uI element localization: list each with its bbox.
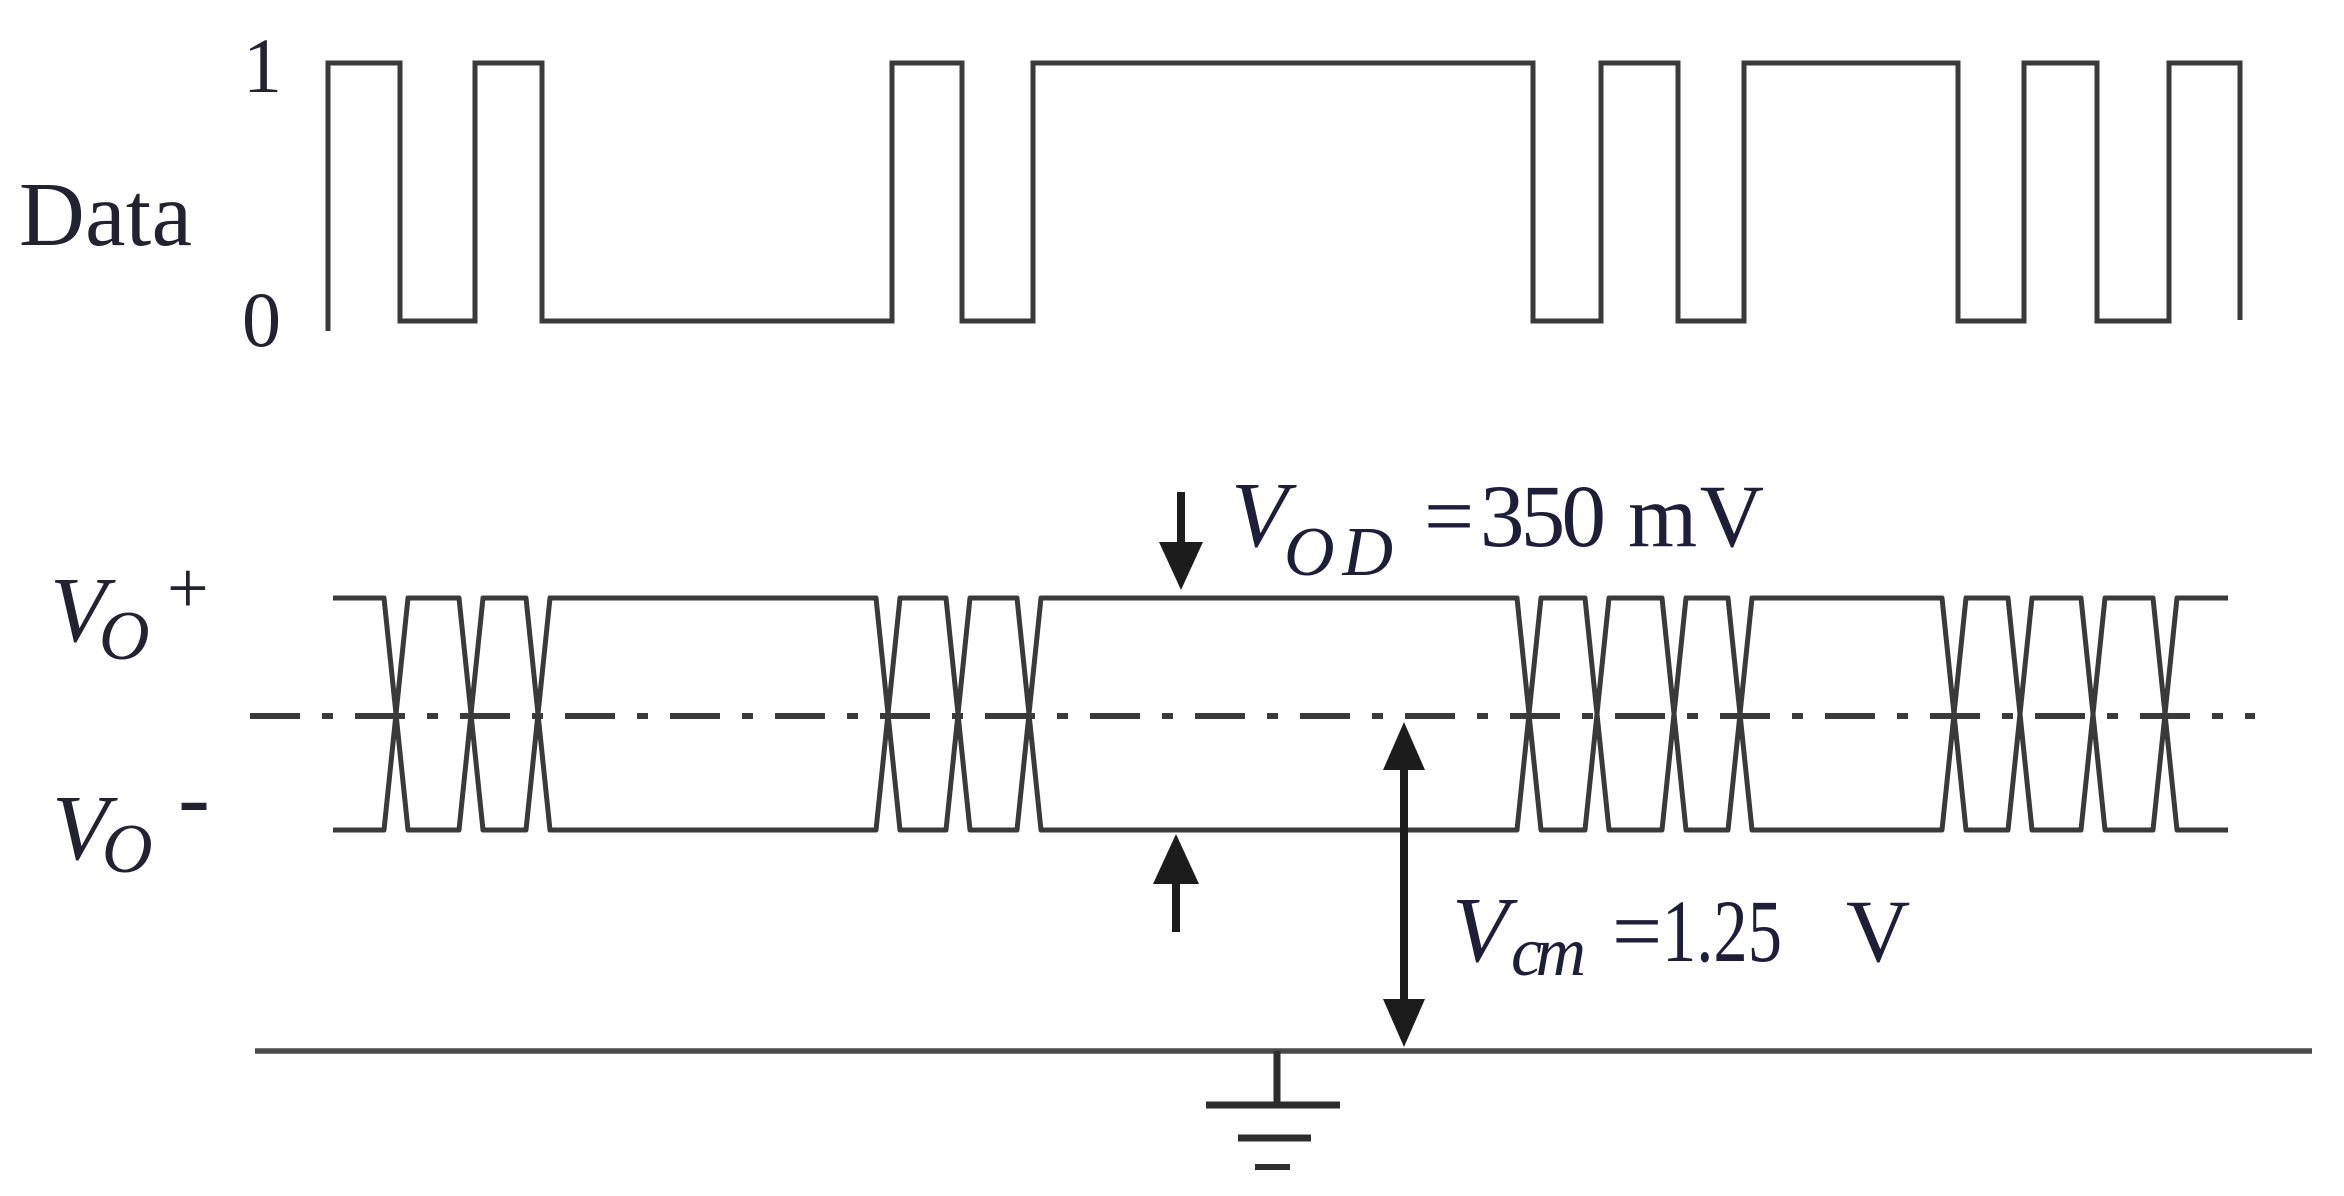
- common-mode dash-dot center line: [250, 713, 2255, 719]
- differential trace VO+: [333, 598, 2228, 830]
- svg-text:=: =: [1612, 883, 1662, 981]
- svg-text:O: O: [99, 598, 150, 675]
- ground rail line: [255, 1048, 2312, 1054]
- svg-text:=: =: [1424, 468, 1474, 566]
- svg-text:1: 1: [243, 22, 282, 109]
- svg-text:cm: cm: [1511, 914, 1586, 991]
- svg-text:O: O: [102, 811, 153, 888]
- VOD top arrow (down): [1159, 492, 1203, 590]
- svg-text:mV: mV: [1628, 468, 1764, 566]
- svg-text:-: -: [178, 743, 210, 850]
- svg-text:+: +: [167, 548, 209, 630]
- VOD bottom arrow (up): [1153, 834, 1199, 932]
- ground symbol: [1206, 1051, 1340, 1167]
- data waveform: [328, 63, 2240, 331]
- svg-text:350: 350: [1480, 468, 1606, 566]
- svg-text:0: 0: [242, 276, 281, 363]
- svg-text:Data: Data: [19, 164, 192, 265]
- svg-text:1.25: 1.25: [1662, 883, 1782, 981]
- svg-text:V: V: [1846, 883, 1910, 981]
- differential trace VO-: [333, 598, 2228, 830]
- Vcm dimension arrow (double-headed vertical): [1383, 722, 1425, 1047]
- svg-text:V: V: [1452, 879, 1518, 982]
